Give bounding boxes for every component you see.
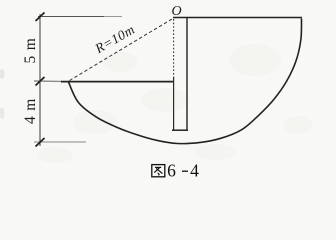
- curved tank wall (arc): [69, 19, 302, 144]
- dimension line (vertical): [39, 14, 41, 146]
- faint scan mottling: [37, 44, 312, 163]
- tick mark middle: [36, 77, 45, 86]
- gate left edge dotted (above water): [173, 19, 175, 78]
- gate right edge: [186, 18, 188, 131]
- top horizontal line (tank top from O to right): [173, 17, 302, 19]
- radius dashed line R=10m: [70, 19, 173, 81]
- water surface line: [61, 81, 173, 83]
- tick mark top: [36, 13, 45, 22]
- tick mark bottom: [36, 138, 45, 147]
- extension line middle (water surface level): [34, 80, 62, 82]
- svg-text:5m: 5m: [22, 33, 39, 64]
- extension line bottom (bottom level): [34, 141, 86, 143]
- caption dash: [182, 170, 188, 172]
- extension line top (level of O): [38, 16, 104, 18]
- paper background: [0, 0, 336, 182]
- svg-text:6: 6: [167, 161, 176, 181]
- faint scan smudge left edge upper: [0, 69, 5, 79]
- gate left edge solid (below water): [173, 77, 175, 130]
- svg-text:4m: 4m: [22, 93, 39, 124]
- faint scan smudge left edge lower: [0, 107, 5, 119]
- svg-text:4: 4: [190, 161, 199, 181]
- caption 图 6-4 : hanzi 图 drawn as vector strokes: [152, 165, 165, 177]
- gate bottom: [172, 129, 188, 131]
